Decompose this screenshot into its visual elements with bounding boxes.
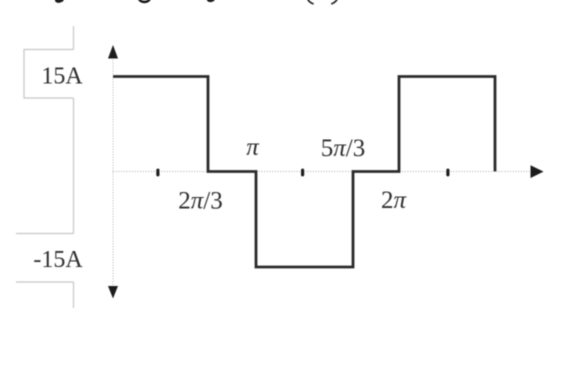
left callout bracket: 15A notch — [24, 50, 74, 99]
cut-off text descender fragment 2 (g loop bottom) — [138, 0, 151, 3]
x-axis arrowhead — [531, 165, 544, 178]
axis tick at 4pi/3 — [301, 169, 304, 177]
svg-text:15A: 15A — [41, 64, 83, 90]
axis tick at 7pi/3 — [446, 169, 449, 177]
svg-text:2π: 2π — [381, 187, 408, 214]
x-axis (dotted horizontal line) — [113, 171, 532, 173]
cut-off text descender fragment 3 (comma) — [207, 0, 215, 2]
y-axis (dotted vertical line) — [112, 57, 114, 288]
svg-text:5π/3: 5π/3 — [321, 135, 365, 162]
y-axis top arrowhead — [108, 45, 118, 59]
y-axis bottom arrowhead — [108, 286, 118, 299]
cut-off text descender fragment 4 (open paren bottom) — [308, 0, 314, 4]
svg-text:2π/3: 2π/3 — [178, 188, 222, 215]
left callout bracket: middle vertical segment — [73, 98, 75, 234]
cut-off text descender fragment 1 (s-cedilla hook) — [55, 0, 64, 3]
axis tick at pi/3 — [156, 169, 159, 177]
left callout bracket: lower vertical segment — [73, 282, 75, 308]
left callout bracket: -15A notch top line — [16, 233, 74, 235]
square waveform i(t) — [113, 77, 495, 268]
svg-text:π: π — [246, 134, 260, 161]
svg-text:-15A: -15A — [33, 247, 83, 273]
left callout bracket: upper vertical segment — [73, 26, 75, 50]
cut-off text descender fragment 5 (close paren bottom) — [331, 0, 337, 4]
left callout bracket: -15A notch bottom line — [16, 281, 74, 283]
